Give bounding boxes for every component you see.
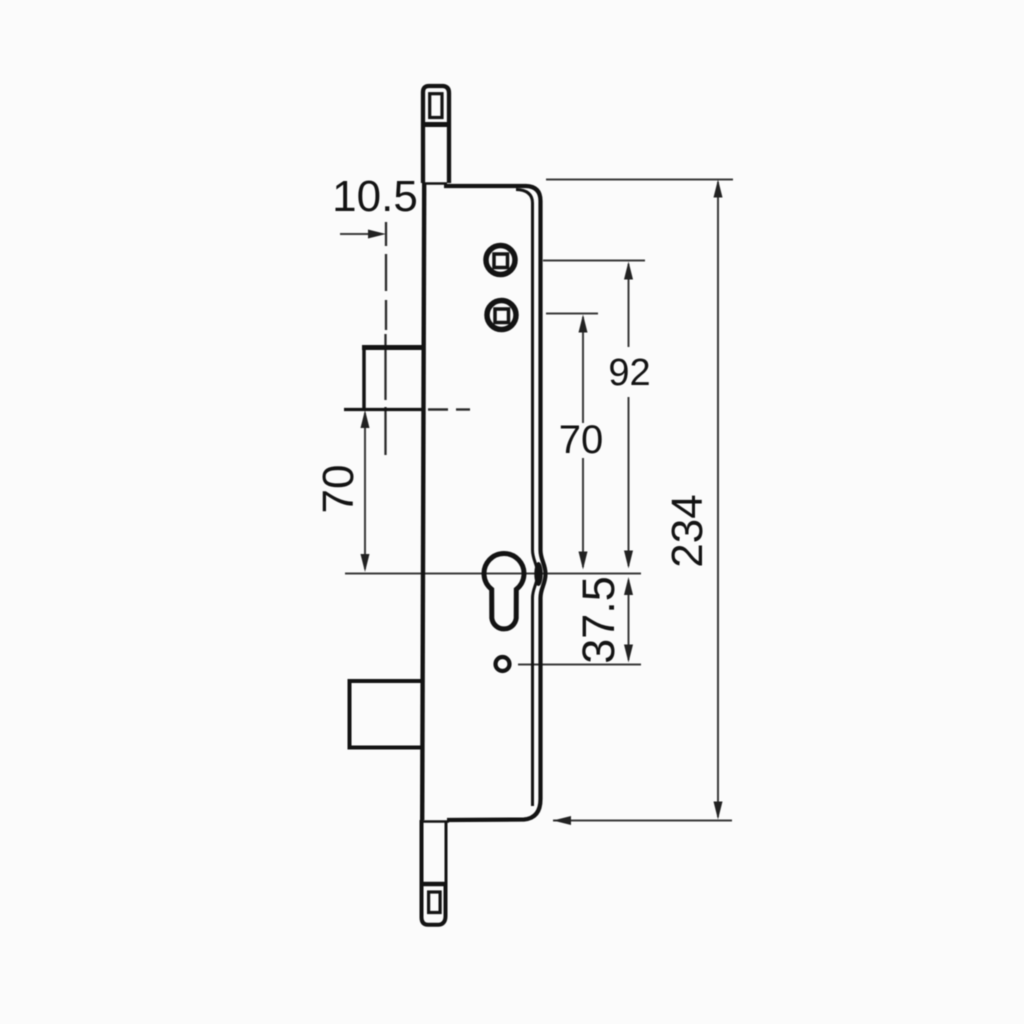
svg-text:10.5: 10.5 [332,172,418,221]
svg-text:92: 92 [608,352,650,394]
svg-text:70: 70 [314,465,363,514]
svg-text:37.5: 37.5 [573,576,624,664]
svg-text:234: 234 [663,494,712,567]
svg-text:70: 70 [559,418,604,462]
